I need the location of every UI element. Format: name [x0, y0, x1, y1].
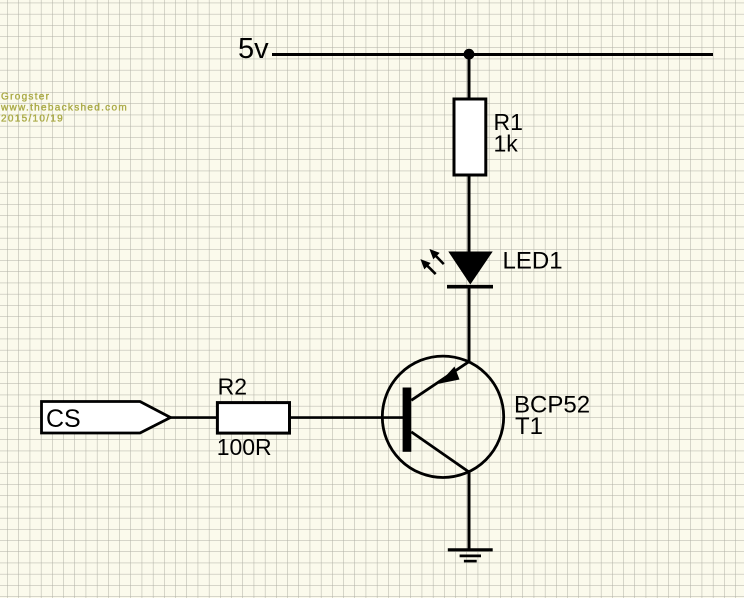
- ground: [448, 550, 493, 561]
- svg-text:5v: 5v: [238, 33, 269, 65]
- wire R2 pin 2 to T1 base: [289, 416, 404, 419]
- wire CS flag to R2 pin 1: [169, 416, 218, 419]
- LED LED1 cathode bar: [447, 285, 493, 289]
- port flag CS: [42, 402, 171, 434]
- svg-text:LED1: LED1: [503, 248, 563, 275]
- svg-text:R2: R2: [218, 374, 247, 400]
- transistor T1 body circle: [382, 356, 503, 477]
- title block credit text: [0, 92, 128, 125]
- LED LED1 light arrow 1: [420, 259, 435, 274]
- svg-text:Grogster: Grogster: [1, 92, 50, 103]
- transistor T1 collector lead: [411, 432, 469, 472]
- svg-text:2015/10/19: 2015/10/19: [1, 114, 64, 125]
- wire 5V rail: [272, 53, 713, 56]
- resistor R1: [454, 99, 486, 175]
- LED LED1 anode triangle: [448, 252, 492, 285]
- wire rail to R1 pin 1: [468, 54, 471, 99]
- svg-text:1k: 1k: [494, 131, 519, 157]
- wire T1 collector to ground: [468, 471, 471, 550]
- svg-text:www.thebackshed.com: www.thebackshed.com: [0, 103, 128, 114]
- svg-text:CS: CS: [46, 405, 81, 433]
- svg-text:T1: T1: [515, 413, 543, 440]
- wire R1 pin 2 to LED1 anode: [468, 175, 471, 253]
- junction dot on 5V rail: [464, 49, 475, 60]
- wire LED1 cathode to T1 emitter: [468, 285, 471, 363]
- transistor T1 base bar: [403, 388, 412, 452]
- svg-text:100R: 100R: [217, 434, 272, 460]
- resistor R2: [217, 403, 289, 434]
- LED LED1 light arrow 2: [429, 249, 443, 264]
- transistor T1 emitter lead with PNP arrow: [411, 362, 468, 400]
